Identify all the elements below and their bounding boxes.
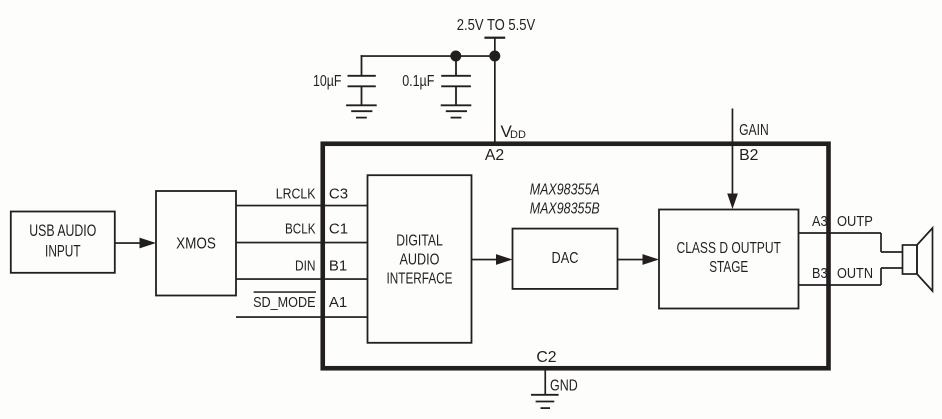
wire: GND stub xyxy=(544,368,546,395)
svg-text:BCLK: BCLK xyxy=(285,220,316,237)
svg-text:LRCLK: LRCLK xyxy=(276,186,316,203)
wire SD_MODE xyxy=(236,316,368,318)
wire LRCLK xyxy=(236,205,368,207)
capacitor 0.1uF xyxy=(441,56,471,105)
IC boundary box MAX98355 xyxy=(323,144,829,369)
CLASS D OUTPUT STAGE block xyxy=(659,210,799,309)
wire: GAIN input vertical with arrow xyxy=(732,109,734,195)
svg-text:INPUT: INPUT xyxy=(45,242,81,260)
USB AUDIO INPUT block xyxy=(11,212,115,273)
svg-text:A2: A2 xyxy=(485,147,504,164)
DAC block xyxy=(513,229,618,289)
wire: USB to XMOS with arrow xyxy=(115,242,141,244)
svg-text:C1: C1 xyxy=(329,220,348,237)
svg-text:SD_MODE: SD_MODE xyxy=(253,294,315,311)
svg-text:B3: B3 xyxy=(812,265,828,282)
wire BCLK xyxy=(236,242,368,244)
wire OUTN xyxy=(799,268,903,285)
svg-text:DIN: DIN xyxy=(295,257,316,274)
wire: DAC to Class D with arrow xyxy=(618,259,643,261)
wire: VDD vertical from supply bar into IC xyxy=(494,38,496,145)
wire DIN xyxy=(236,278,368,280)
svg-text:OUTP: OUTP xyxy=(837,213,873,230)
ground (10uF) xyxy=(346,105,377,117)
svg-text:USB AUDIO: USB AUDIO xyxy=(29,222,96,240)
svg-text:DIGITAL: DIGITAL xyxy=(396,232,443,249)
svg-text:MAX98355B: MAX98355B xyxy=(530,201,600,218)
wire: horizontal supply to decoupling caps xyxy=(361,55,495,57)
capacitor 10uF xyxy=(348,55,376,105)
svg-text:AUDIO: AUDIO xyxy=(400,252,440,269)
svg-text:0.1µF: 0.1µF xyxy=(402,73,434,90)
ground (0.1uF) xyxy=(441,105,472,117)
svg-text:A3: A3 xyxy=(812,213,828,230)
svg-text:XMOS: XMOS xyxy=(176,236,216,253)
svg-text:10µF: 10µF xyxy=(313,73,342,90)
svg-text:OUTN: OUTN xyxy=(837,265,873,282)
svg-text:B1: B1 xyxy=(329,257,347,274)
svg-text:GAIN: GAIN xyxy=(739,122,769,139)
speaker xyxy=(903,228,933,291)
junction node at 0.1uF tap xyxy=(450,51,461,62)
XMOS block xyxy=(156,191,236,296)
svg-text:GND: GND xyxy=(550,378,578,395)
svg-text:B2: B2 xyxy=(739,147,758,164)
svg-text:INTERFACE: INTERFACE xyxy=(387,271,453,288)
DIGITAL AUDIO INTERFACE block xyxy=(368,175,472,343)
svg-text:CLASS D OUTPUT: CLASS D OUTPUT xyxy=(677,240,782,257)
svg-text:2.5V TO 5.5V: 2.5V TO 5.5V xyxy=(457,17,536,34)
supply bar symbol xyxy=(484,37,505,39)
wire: DAI to DAC with arrow xyxy=(472,259,497,261)
wire OUTP xyxy=(799,233,903,252)
svg-text:A1: A1 xyxy=(329,294,347,311)
svg-text:DAC: DAC xyxy=(552,250,579,267)
junction node at VDD column xyxy=(489,51,500,62)
svg-text:MAX98355A: MAX98355A xyxy=(530,182,600,199)
ground (main GND) xyxy=(531,395,559,408)
svg-text:C3: C3 xyxy=(329,186,348,203)
svg-text:STAGE: STAGE xyxy=(709,259,748,276)
svg-text:C2: C2 xyxy=(536,349,556,366)
